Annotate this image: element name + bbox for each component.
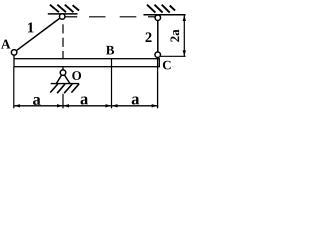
arrows at O: [57, 104, 63, 107]
support O: triangle: [56, 75, 61, 84]
pin of support 1: [59, 14, 64, 20]
dashed vertical from pin 1 to beam: [62, 24, 64, 59]
support O: stem: [62, 67, 64, 70]
2a dimension line: [183, 15, 185, 56]
arrow at C pointing right: [152, 104, 158, 107]
label A: [1, 40, 10, 49]
label 2a (rotated): [171, 29, 180, 41]
2a bottom arrow: [183, 50, 186, 56]
2a top arrow: [183, 15, 186, 21]
dimension extension line at O: [62, 94, 64, 109]
support 2 ceiling line (extends right as 2a top extension): [144, 14, 186, 16]
label a (O-B): [81, 97, 88, 105]
arrow at A pointing left: [14, 104, 20, 107]
label C: [163, 61, 171, 70]
bottom dimension line: [14, 105, 158, 107]
2a bottom extension line: [160, 55, 185, 57]
rod 2: [157, 20, 159, 52]
support O: ground hatching: [50, 84, 79, 93]
label 2: [146, 32, 152, 42]
dashed horizontal between supports: [65, 16, 155, 18]
support 1 ceiling line: [48, 13, 78, 15]
support O: ground line: [51, 83, 79, 85]
dimension extension line at B: [111, 59, 113, 109]
support 2 hatching: [147, 5, 175, 13]
dimension extension line at A: [13, 67, 15, 108]
rod 1: [16, 18, 60, 51]
pin at C (bottom of rod 2): [155, 52, 161, 58]
arrows at B: [106, 104, 112, 107]
support O: pin circle: [60, 70, 66, 76]
pin at A: [13, 55, 15, 59]
pin of support 2: [155, 15, 161, 21]
label a (A-O): [33, 97, 40, 105]
label 1: [28, 23, 34, 33]
label B: [106, 46, 114, 55]
support 1 hatching: [50, 5, 79, 13]
beam AC (bar): [14, 59, 159, 67]
dimension extension line at C: [157, 57, 159, 108]
label O: [72, 71, 81, 80]
label a (B-C): [132, 97, 139, 105]
